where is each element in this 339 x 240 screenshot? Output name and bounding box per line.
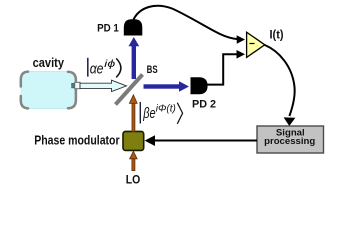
svg-text:processing: processing bbox=[264, 136, 315, 147]
svg-text:βe: βe bbox=[142, 105, 155, 122]
svg-text:Phase modulator: Phase modulator bbox=[34, 133, 119, 148]
cavity body bbox=[21, 71, 75, 108]
blue beam arrow BS to PD2 bbox=[144, 81, 190, 92]
svg-text:iΦ(t): iΦ(t) bbox=[156, 103, 176, 114]
ket label |alpha e^(i phi)> bbox=[88, 58, 121, 78]
svg-text:I(t): I(t) bbox=[270, 29, 284, 41]
svg-text:cavity: cavity bbox=[33, 56, 64, 70]
cable amplifier to signal processing bbox=[265, 45, 295, 116]
svg-text:iϕ: iϕ bbox=[104, 58, 115, 70]
photodetector PD2 bbox=[191, 77, 208, 94]
beam splitter BS bbox=[116, 75, 143, 105]
svg-text:PD 2: PD 2 bbox=[192, 99, 216, 111]
amplifier triangle bbox=[247, 32, 265, 57]
wire signal processing to phase modulator bbox=[153, 140, 257, 142]
cable PD2 to amplifier bbox=[206, 54, 237, 84]
cavity output coupler bbox=[72, 83, 75, 88]
svg-text:PD 1: PD 1 bbox=[97, 22, 119, 34]
blue beam arrow BS to PD1 bbox=[129, 37, 140, 79]
ket label |beta e^(i Phi(t))> bbox=[140, 102, 182, 124]
cavity mirror bracket bottom-left bbox=[21, 96, 28, 108]
svg-text:αe: αe bbox=[90, 61, 104, 78]
phase modulator box bbox=[123, 131, 144, 150]
cavity mirror bracket top-left bbox=[21, 72, 28, 87]
signal processing box bbox=[257, 126, 324, 153]
svg-text:LO: LO bbox=[126, 172, 141, 186]
cavity mirror bracket right bbox=[68, 72, 76, 109]
photodetector PD1 bbox=[124, 19, 143, 35]
orange beam arrow LO to modulator bbox=[130, 151, 138, 170]
cable PD1 to amplifier bbox=[134, 6, 239, 40]
minus sign bbox=[250, 43, 255, 45]
orange beam arrow modulator to BS bbox=[129, 95, 137, 132]
beam arrow cavity to BS bbox=[80, 80, 127, 91]
svg-text:BS: BS bbox=[147, 64, 158, 76]
